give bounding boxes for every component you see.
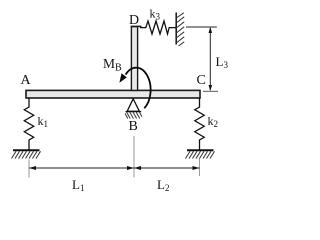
- extension line below k1 ground: [28, 160, 30, 178]
- spring k1: [24, 98, 33, 150]
- ground under k1: [12, 150, 41, 158]
- spring k3: [140, 21, 176, 34]
- dimension L2: [134, 166, 200, 170]
- moment MB arrowhead: [119, 73, 126, 83]
- ground under k2: [186, 150, 215, 158]
- wall support top right: [176, 13, 184, 47]
- svg-text:B: B: [129, 119, 138, 134]
- svg-text:A: A: [21, 73, 32, 88]
- extension line below B: [133, 136, 135, 178]
- dimension L3: [186, 27, 218, 91]
- member BD: [131, 27, 137, 91]
- beam AC: [26, 90, 200, 98]
- extension line below k2 ground: [199, 159, 201, 177]
- moment MB arc: [126, 68, 151, 109]
- svg-text:C: C: [197, 73, 206, 88]
- spring k2: [195, 98, 204, 150]
- dimension L1: [29, 166, 134, 170]
- svg-text:D: D: [129, 13, 139, 28]
- member BD top cap: [131, 25, 142, 27]
- pin support B: [125, 99, 142, 119]
